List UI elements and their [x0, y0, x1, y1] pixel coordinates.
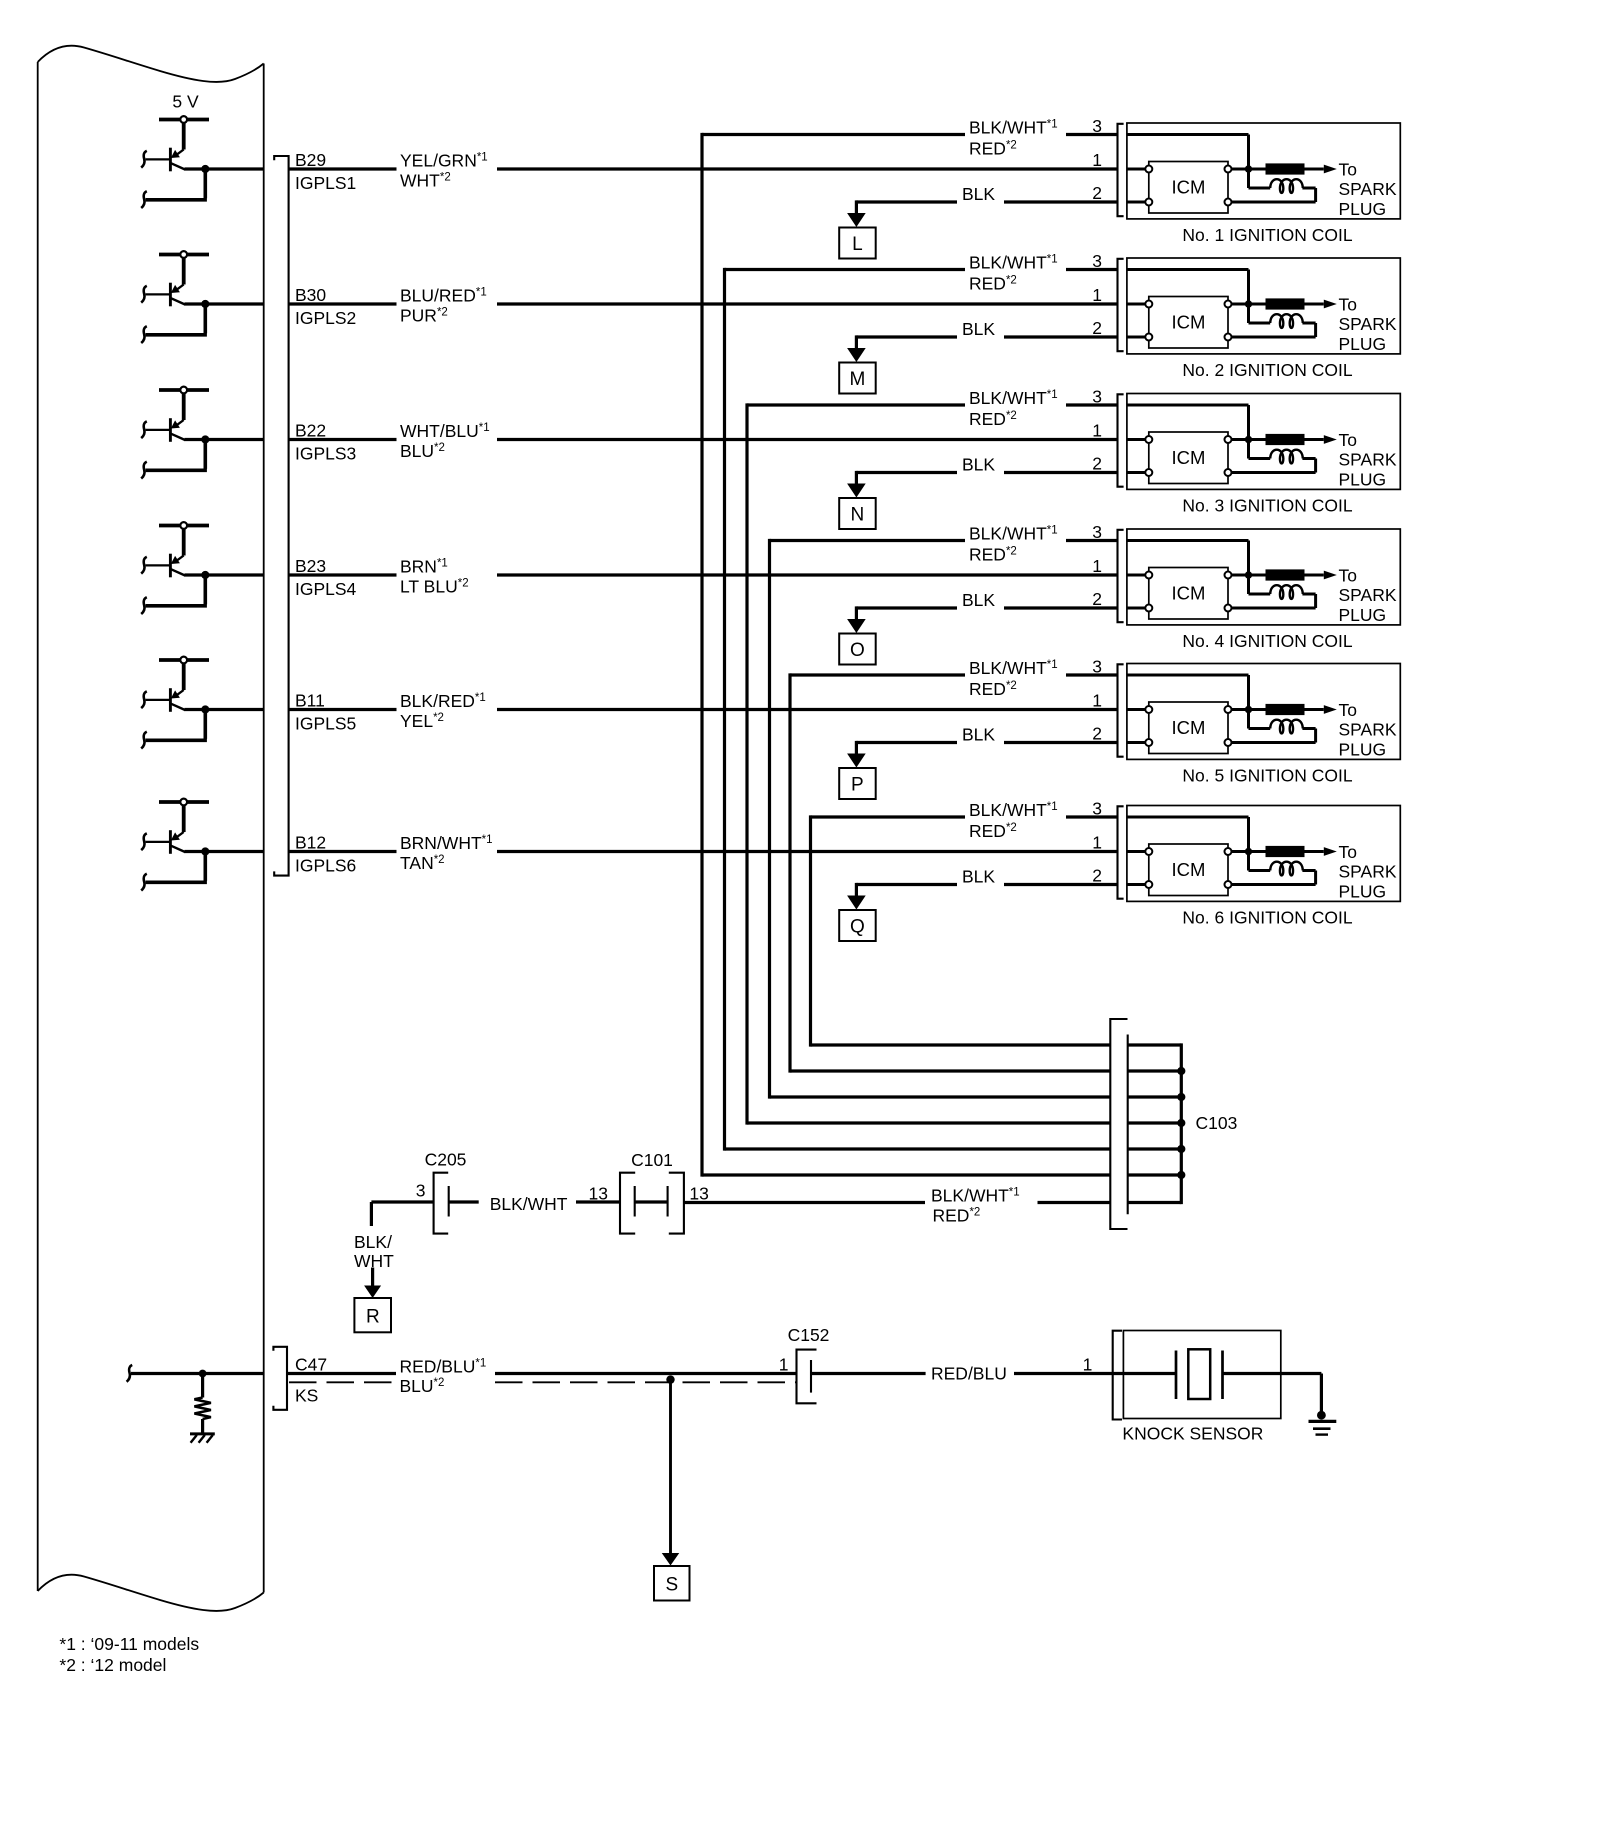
- junction node (coil 1 primary): [1245, 165, 1252, 172]
- svg-text:To: To: [1339, 700, 1357, 720]
- ignition coil 4: connector bracket: [1118, 530, 1124, 622]
- wire to ground code S: [662, 1380, 680, 1566]
- svg-text:RED/BLU*1: RED/BLU*1: [400, 1356, 487, 1376]
- svg-text:IGPLS4: IGPLS4: [295, 579, 357, 599]
- junction node (coil 2 primary): [1245, 300, 1252, 307]
- ignition coil 1: connector bracket: [1118, 124, 1124, 216]
- svg-text:B11: B11: [295, 690, 325, 710]
- primary winding L2: [1270, 314, 1303, 328]
- svg-text:*2 : ‘12 model: *2 : ‘12 model: [59, 1655, 166, 1675]
- wire BLK/WHT : C205 to C101: [449, 1194, 620, 1214]
- svg-text:SPARK: SPARK: [1339, 720, 1397, 740]
- junction node (KS pull resistor): [199, 1370, 207, 1378]
- ICM module (coil 6): [1145, 844, 1231, 896]
- svg-text:SPARK: SPARK: [1339, 179, 1397, 199]
- svg-text:BLK: BLK: [962, 319, 995, 339]
- wire BLK : coil 3 pin 2 to ground code N: [847, 455, 1117, 498]
- wire BLK : coil 1 pin 2 to ground code L: [847, 184, 1117, 227]
- wire BLU*2 (dashed, '12 model): [289, 1381, 797, 1383]
- ECM connector bracket C47: [273, 1347, 287, 1410]
- svg-text:B30: B30: [295, 285, 326, 305]
- svg-text:PLUG: PLUG: [1339, 882, 1387, 902]
- svg-text:BLK/: BLK/: [354, 1232, 392, 1252]
- C101 pin contacts: [635, 1186, 668, 1217]
- transistor Q2 (driver for B30): [141, 258, 209, 344]
- svg-text:PLUG: PLUG: [1339, 605, 1387, 625]
- label: To SPARK PLUG (coil 5): [1339, 700, 1397, 760]
- ignition coil 6 box: [1127, 806, 1400, 902]
- ECM connector bracket (pins B29-B12): [274, 156, 288, 876]
- svg-text:IGPLS5: IGPLS5: [295, 714, 356, 734]
- svg-text:1: 1: [1092, 150, 1102, 170]
- coil 1 internal wiring: [1127, 135, 1324, 203]
- transistor Q4 (driver for B23): [141, 529, 209, 615]
- svg-text:1: 1: [1092, 421, 1102, 441]
- svg-text:No. 6 IGNITION COIL: No. 6 IGNITION COIL: [1182, 907, 1352, 927]
- ICM module (coil 5): [1145, 702, 1231, 754]
- svg-text:To: To: [1339, 565, 1357, 585]
- svg-text:IGPLS3: IGPLS3: [295, 444, 356, 464]
- svg-text:No. 5 IGNITION COIL: No. 5 IGNITION COIL: [1182, 765, 1352, 785]
- wire: Q2 collector to ECM pin B30: [185, 302, 264, 305]
- label: To SPARK PLUG (coil 1): [1339, 159, 1397, 219]
- svg-text:1: 1: [1092, 556, 1102, 576]
- coil 3 internal wiring: [1127, 405, 1324, 473]
- svg-text:ICM: ICM: [1171, 312, 1205, 333]
- svg-text:C103: C103: [1196, 1113, 1238, 1133]
- coil 5 internal wiring: [1127, 675, 1324, 743]
- svg-text:RED/BLU: RED/BLU: [931, 1364, 1007, 1384]
- ICM module (coil 4): [1145, 568, 1231, 620]
- svg-text:ICM: ICM: [1171, 583, 1205, 604]
- svg-text:BLK/WHT*1: BLK/WHT*1: [969, 658, 1058, 678]
- label: To SPARK PLUG (coil 3): [1339, 430, 1397, 490]
- svg-text:3: 3: [1092, 116, 1102, 136]
- ICM module (coil 1): [1145, 162, 1231, 214]
- noise suppressor (coil 1): [1266, 164, 1304, 174]
- wire: Q4 collector to ECM pin B23: [185, 573, 264, 576]
- wire BLK : coil 5 pin 2 to ground code P: [847, 725, 1117, 768]
- wire: Q3 collector to ECM pin B22: [185, 438, 264, 441]
- svg-text:3: 3: [1092, 387, 1102, 407]
- svg-text:ICM: ICM: [1171, 177, 1205, 198]
- wire BLU/RED*1 / PUR*2 : pin B30 to coil 2 pin 1: [289, 286, 1118, 326]
- wire: Q6 collector to ECM pin B12: [185, 850, 264, 853]
- junction node to ground code S: [666, 1375, 674, 1383]
- wire BRN*1 / LT BLU*2 : pin B23 to coil 4 pin 1: [289, 557, 1118, 597]
- ground (knock sensor earth): [1309, 1411, 1337, 1435]
- ignition coil 3: connector bracket: [1118, 394, 1124, 486]
- svg-text:2: 2: [1092, 453, 1102, 473]
- C103 common bus vertical: [1180, 1043, 1183, 1204]
- wire WHT/BLU*1 / BLU*2 : pin B22 to coil 3 pin 1: [289, 421, 1118, 461]
- 5 V supply rail (driver 4): [159, 522, 209, 529]
- svg-text:BLK: BLK: [962, 455, 995, 475]
- ECM pin C47 / KS labels: [295, 1354, 327, 1405]
- wire BLK/WHT : C205 pin 3 stub: [371, 1202, 433, 1226]
- arrow: coil 5 output to spark plug: [1324, 705, 1337, 714]
- svg-text:1: 1: [1092, 285, 1102, 305]
- primary winding L1: [1270, 179, 1303, 193]
- wire BLK/WHT*1 RED*2 : C103 to coil 5 pin 3 (with bus down): [790, 658, 1181, 1073]
- junction node (coil 5 primary): [1245, 706, 1252, 713]
- svg-text:To: To: [1339, 842, 1357, 862]
- svg-text:Q: Q: [850, 917, 865, 938]
- svg-text:5 V: 5 V: [172, 92, 199, 112]
- arrow: coil 2 output to spark plug: [1324, 300, 1337, 309]
- arrow: coil 6 output to spark plug: [1324, 847, 1337, 856]
- svg-text:SPARK: SPARK: [1339, 585, 1397, 605]
- svg-text:PLUG: PLUG: [1339, 740, 1387, 760]
- junction node (coil 6 primary): [1245, 848, 1252, 855]
- svg-text:BLK/WHT*1: BLK/WHT*1: [931, 1185, 1020, 1205]
- connector C103 (outer half): [1110, 1019, 1127, 1229]
- transistor Q6 (driver for B12): [141, 805, 209, 891]
- svg-text:KNOCK SENSOR: KNOCK SENSOR: [1122, 1423, 1263, 1443]
- ground code box R: [354, 1298, 391, 1332]
- ignition coil 1 box: [1127, 123, 1400, 219]
- ground code box Q: [839, 910, 876, 941]
- svg-text:BLK: BLK: [962, 725, 995, 745]
- ignition coil 3 box: [1127, 394, 1400, 490]
- svg-text:BLK/WHT*1: BLK/WHT*1: [969, 252, 1058, 272]
- wire BLK/RED*1 / YEL*2 : pin B11 to coil 5 pin 1: [289, 691, 1118, 731]
- svg-text:C101: C101: [631, 1150, 673, 1170]
- wire BLK/WHT*1 RED*2 : C103 to coil 4 pin 3 (with bus down): [770, 523, 1182, 1098]
- junction node (coil 4 primary): [1245, 571, 1252, 578]
- label: To SPARK PLUG (coil 4): [1339, 565, 1397, 625]
- wire: Q5 collector to ECM pin B11: [185, 708, 264, 711]
- svg-text:BLU/RED*1: BLU/RED*1: [400, 286, 487, 306]
- svg-text:*1 : ‘09-11 models: *1 : ‘09-11 models: [59, 1634, 199, 1654]
- svg-text:2: 2: [1092, 589, 1102, 609]
- ground code box N: [839, 498, 876, 529]
- C205 pin contact: [448, 1186, 450, 1217]
- wire BLK/WHT*1 RED*2 : C103 to coil 6 pin 3 (with bus down): [811, 800, 1182, 1047]
- noise suppressor (coil 2): [1266, 299, 1304, 309]
- svg-text:BLK/RED*1: BLK/RED*1: [400, 691, 486, 711]
- primary winding L6: [1270, 862, 1303, 876]
- svg-text:2: 2: [1092, 183, 1102, 203]
- ECM pin B22 / IGPLS3 labels: [295, 420, 356, 463]
- connector C101 (right half): [669, 1173, 684, 1234]
- svg-text:B23: B23: [295, 556, 326, 576]
- connector C152 bracket: [797, 1350, 817, 1404]
- svg-text:3: 3: [1092, 251, 1102, 271]
- svg-text:C152: C152: [788, 1325, 830, 1345]
- svg-text:2: 2: [1092, 723, 1102, 743]
- ground code box P: [839, 768, 876, 799]
- ECM pin B11 / IGPLS5 labels: [295, 690, 356, 733]
- svg-text:3: 3: [1092, 799, 1102, 819]
- svg-text:1: 1: [1083, 1355, 1093, 1375]
- svg-text:3: 3: [416, 1181, 426, 1201]
- wire BRN/WHT*1 / TAN*2 : pin B12 to coil 6 pin 1: [289, 833, 1118, 873]
- svg-text:BLK/WHT*1: BLK/WHT*1: [969, 117, 1058, 137]
- svg-text:BLK/WHT*1: BLK/WHT*1: [969, 523, 1058, 543]
- svg-text:ICM: ICM: [1171, 717, 1205, 738]
- 5 V supply rail (driver 6): [159, 799, 209, 806]
- primary winding L3: [1270, 450, 1303, 464]
- svg-text:BLK/WHT: BLK/WHT: [490, 1194, 568, 1214]
- arrow: coil 4 output to spark plug: [1324, 571, 1337, 580]
- svg-text:1: 1: [779, 1355, 789, 1375]
- ground code box O: [839, 634, 876, 665]
- svg-text:No. 1 IGNITION COIL: No. 1 IGNITION COIL: [1182, 225, 1352, 245]
- wire BLK : coil 2 pin 2 to ground code M: [847, 319, 1117, 362]
- svg-text:P: P: [851, 775, 864, 796]
- svg-text:IGPLS1: IGPLS1: [295, 173, 356, 193]
- ECM pin B30 / IGPLS2 labels: [295, 285, 356, 328]
- arrow to ground code R: [364, 1268, 381, 1299]
- svg-text:KS: KS: [295, 1386, 318, 1406]
- svg-text:PLUG: PLUG: [1339, 470, 1387, 490]
- svg-text:BLK: BLK: [962, 867, 995, 887]
- KS input wire inside ECM: [127, 1365, 264, 1382]
- svg-text:PLUG: PLUG: [1339, 334, 1387, 354]
- svg-text:To: To: [1339, 430, 1357, 450]
- svg-text:SPARK: SPARK: [1339, 314, 1397, 334]
- svg-text:No. 2 IGNITION COIL: No. 2 IGNITION COIL: [1182, 360, 1352, 380]
- noise suppressor (coil 5): [1266, 704, 1304, 714]
- primary winding L5: [1270, 720, 1303, 734]
- svg-text:To: To: [1339, 294, 1357, 314]
- svg-text:2: 2: [1092, 318, 1102, 338]
- wire RED/BLU*1 (solid) : C47 to C152: [287, 1356, 797, 1396]
- ignition coil 2: connector bracket: [1118, 259, 1124, 351]
- 5 V supply rail (driver 1): [159, 116, 209, 123]
- ICM module (coil 3): [1145, 432, 1231, 484]
- label: To SPARK PLUG (coil 6): [1339, 842, 1397, 902]
- svg-text:13: 13: [689, 1184, 708, 1204]
- wire BLK : coil 4 pin 2 to ground code O: [847, 590, 1117, 633]
- 5 V supply rail (driver 5): [159, 657, 209, 664]
- svg-text:SPARK: SPARK: [1339, 862, 1397, 882]
- noise suppressor (coil 4): [1266, 570, 1304, 580]
- svg-text:C47: C47: [295, 1354, 327, 1374]
- svg-text:N: N: [851, 505, 865, 526]
- svg-text:BRN/WHT*1: BRN/WHT*1: [400, 833, 493, 853]
- svg-text:R: R: [366, 1306, 380, 1327]
- svg-text:2: 2: [1092, 865, 1102, 885]
- svg-text:C205: C205: [425, 1150, 467, 1170]
- arrow: coil 1 output to spark plug: [1324, 165, 1337, 174]
- connector C205 bracket: [434, 1173, 449, 1234]
- transistor Q3 (driver for B22): [141, 393, 209, 479]
- wire BLK/WHT*1 RED*2 : C103 to coil 2 pin 3 (with bus down): [725, 252, 1182, 1150]
- C101 pin 13 labels: [589, 1184, 709, 1204]
- label BLK/WHT (stub): [354, 1232, 394, 1271]
- svg-text:1: 1: [1092, 833, 1102, 853]
- ignition coil 5: connector bracket: [1118, 664, 1124, 756]
- transistor Q1 (driver for B29): [141, 123, 209, 209]
- ECM pin B29 / IGPLS1 labels: [295, 150, 356, 193]
- label: To SPARK PLUG (coil 2): [1339, 294, 1397, 354]
- svg-text:IGPLS2: IGPLS2: [295, 308, 356, 328]
- wire RED/BLU : C152 to knock sensor: [811, 1364, 1176, 1384]
- coil 6 internal wiring: [1127, 817, 1324, 885]
- noise suppressor (coil 3): [1266, 434, 1304, 444]
- ignition coil 6: connector bracket: [1118, 806, 1124, 898]
- svg-text:S: S: [666, 1575, 679, 1596]
- primary winding L4: [1270, 585, 1303, 599]
- ECM pin B12 / IGPLS6 labels: [295, 832, 356, 875]
- chassis ground (KS resistor): [190, 1434, 215, 1443]
- transistor Q5 (driver for B11): [141, 663, 209, 749]
- svg-text:IGPLS6: IGPLS6: [295, 856, 356, 876]
- wire: Q1 collector to ECM pin B29: [185, 167, 264, 170]
- resistor (KS bias): [194, 1374, 211, 1433]
- svg-text:3: 3: [1092, 657, 1102, 677]
- knock sensor connector bracket: [1113, 1331, 1122, 1420]
- wire: knock sensor to ground: [1223, 1374, 1322, 1415]
- ignition coil 2 box: [1127, 258, 1400, 354]
- wire BLK/WHT*1 RED*2 : C103 to coil 3 pin 3 (with bus down): [747, 388, 1181, 1125]
- ignition coil 4 box: [1127, 529, 1400, 625]
- wire BLK/WHT*1 RED*2 : C103 to coil 1 pin 3 (with bus down): [702, 117, 1181, 1176]
- svg-text:No. 4 IGNITION COIL: No. 4 IGNITION COIL: [1182, 631, 1352, 651]
- svg-text:WHT/BLU*1: WHT/BLU*1: [400, 421, 490, 441]
- svg-text:ICM: ICM: [1171, 859, 1205, 880]
- svg-text:M: M: [849, 369, 865, 390]
- svg-text:SPARK: SPARK: [1339, 450, 1397, 470]
- svg-text:3: 3: [1092, 522, 1102, 542]
- svg-text:No. 3 IGNITION COIL: No. 3 IGNITION COIL: [1182, 495, 1352, 515]
- piezo element (knock sensor): [1176, 1349, 1223, 1399]
- svg-text:BLK/WHT*1: BLK/WHT*1: [969, 388, 1058, 408]
- connector C101 (left half): [620, 1173, 635, 1234]
- wire YEL/GRN*1 / WHT*2 : pin B29 to coil 1 pin 1: [289, 151, 1118, 191]
- ground code box L: [839, 228, 876, 259]
- svg-text:O: O: [850, 640, 865, 661]
- KNOCK SENSOR box: [1123, 1331, 1280, 1419]
- svg-text:YEL/GRN*1: YEL/GRN*1: [400, 151, 488, 171]
- ground code box S: [654, 1566, 690, 1601]
- svg-text:BLK: BLK: [962, 590, 995, 610]
- svg-text:B29: B29: [295, 150, 326, 170]
- svg-text:L: L: [852, 234, 863, 255]
- wire BLK : coil 6 pin 2 to ground code Q: [847, 867, 1117, 910]
- connector C103 (inner half): [1127, 1035, 1129, 1215]
- wire BLK/WHT*1 RED*2 : C103 to C101 pin 13: [684, 1185, 1181, 1225]
- ground code box M: [839, 363, 876, 394]
- svg-text:PLUG: PLUG: [1339, 199, 1387, 219]
- svg-text:BLK: BLK: [962, 184, 995, 204]
- 5 V supply rail (driver 2): [159, 251, 209, 258]
- ECM pin B23 / IGPLS4 labels: [295, 556, 357, 599]
- svg-text:To: To: [1339, 159, 1357, 179]
- ECM/PCM body (torn-edge box): [38, 46, 264, 1611]
- svg-text:B22: B22: [295, 420, 326, 440]
- ICM module (coil 2): [1145, 297, 1231, 349]
- junction node (coil 3 primary): [1245, 436, 1252, 443]
- svg-text:1: 1: [1092, 691, 1102, 711]
- coil 4 internal wiring: [1127, 541, 1324, 609]
- svg-text:BLK/WHT*1: BLK/WHT*1: [969, 800, 1058, 820]
- ignition coil 5 box: [1127, 664, 1400, 760]
- svg-text:B12: B12: [295, 832, 326, 852]
- 5 V supply rail (driver 3): [159, 387, 209, 394]
- arrow: coil 3 output to spark plug: [1324, 435, 1337, 444]
- svg-text:ICM: ICM: [1171, 447, 1205, 468]
- C152 pin contact: [810, 1360, 812, 1393]
- coil 2 internal wiring: [1127, 270, 1324, 338]
- C103 junction dots: [1177, 1067, 1185, 1179]
- noise suppressor (coil 6): [1266, 846, 1304, 856]
